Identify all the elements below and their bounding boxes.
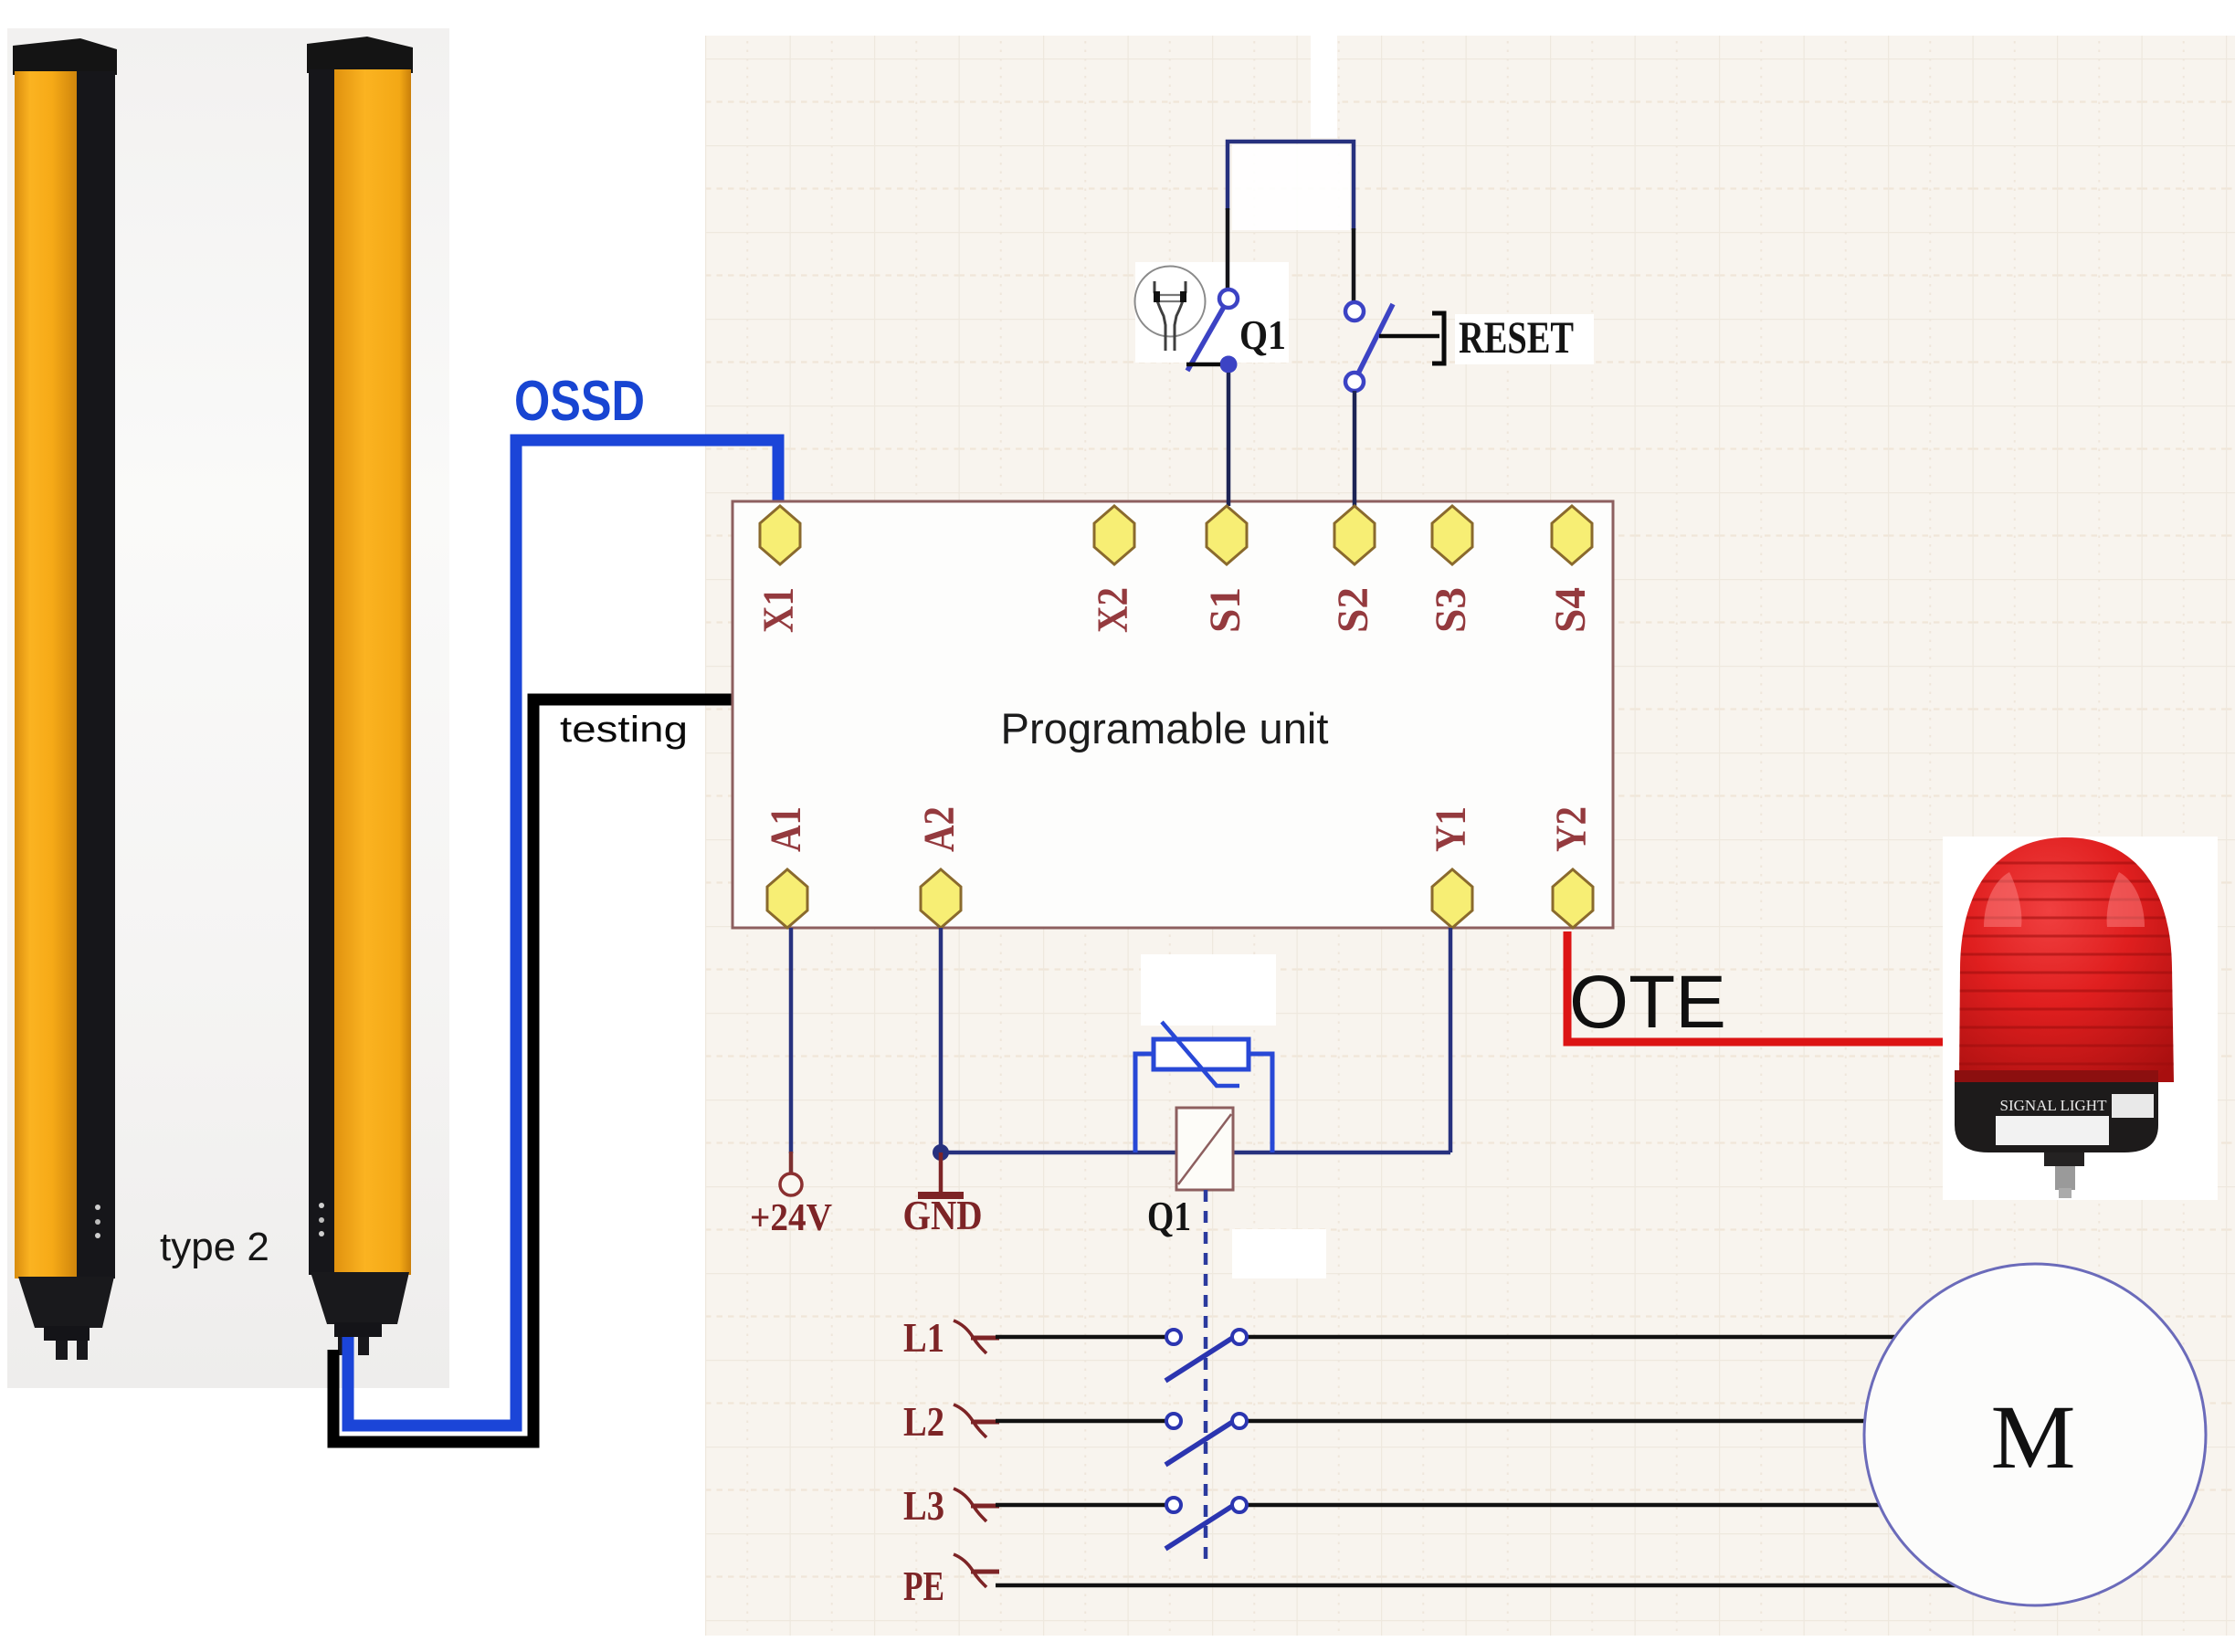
pin Y2 xyxy=(1553,869,1593,928)
wire: OSSD (blue, hand drawn) xyxy=(348,440,778,1426)
wire L3 right xyxy=(1248,1503,1945,1508)
wire: Q1 to S1 xyxy=(1227,373,1231,506)
wire: bridge over Q1/RESET (navy) xyxy=(1228,142,1354,230)
svg-text:GND: GND xyxy=(903,1192,983,1238)
svg-text:RESET: RESET xyxy=(1459,311,1574,363)
signal beacon (OTE lamp) xyxy=(1943,837,2218,1200)
pin S3 xyxy=(1432,506,1472,564)
svg-text:+24V: +24V xyxy=(750,1197,832,1239)
pin S1 xyxy=(1207,506,1247,564)
svg-text:S4: S4 xyxy=(1546,587,1595,633)
wire: A2 to Y1 (bottom bus) xyxy=(941,1151,1450,1155)
wire L1 right xyxy=(1248,1335,1959,1340)
terminal +24V xyxy=(780,1173,802,1195)
svg-text:X2: X2 xyxy=(1089,587,1137,633)
schematic sheet background with grid xyxy=(705,36,2235,1636)
svg-text:L2: L2 xyxy=(903,1398,944,1445)
svg-text:S3: S3 xyxy=(1427,587,1475,633)
pin X2 xyxy=(1094,506,1134,564)
svg-text:SIGNAL LIGHT: SIGNAL LIGHT xyxy=(2000,1097,2108,1114)
lamp (indicator) xyxy=(1135,267,1206,352)
wire L1 left xyxy=(996,1335,1166,1340)
svg-text:S2: S2 xyxy=(1329,587,1377,633)
pin S2 xyxy=(1334,506,1375,564)
svg-text:A1: A1 xyxy=(762,806,810,852)
svg-text:OTE: OTE xyxy=(1569,961,1726,1044)
svg-text:Programable unit: Programable unit xyxy=(1001,704,1329,752)
switch RESET (NO pushbutton) xyxy=(1345,302,1444,391)
pin A1 xyxy=(767,869,807,928)
wire L2 right xyxy=(1248,1419,1936,1424)
light curtain 1 (left, emitter) xyxy=(13,38,117,1360)
svg-text:Y1: Y1 xyxy=(1427,806,1475,852)
varistor RV1 frame wires xyxy=(1135,1054,1152,1152)
wire: RESET to S2 xyxy=(1353,391,1357,506)
wire: A1 to +24V xyxy=(789,928,794,1153)
pin X1 xyxy=(760,506,800,564)
junction A2/GND xyxy=(933,1144,949,1161)
wire L3 left xyxy=(996,1503,1166,1508)
wire: Y1 down xyxy=(1449,928,1453,1152)
light curtain 2 (right, receiver) xyxy=(307,37,413,1355)
pin Y1 xyxy=(1432,869,1472,928)
pin S4 xyxy=(1552,506,1592,564)
contact Q1-2 xyxy=(1165,1414,1247,1465)
svg-text:L3: L3 xyxy=(903,1482,944,1529)
svg-text:Y2: Y2 xyxy=(1547,806,1596,852)
photo backdrop (light curtains) xyxy=(7,28,449,1388)
wire: testing (black, hand drawn) xyxy=(333,700,733,1442)
phase L1 entry hook xyxy=(954,1321,986,1353)
ground GND xyxy=(918,1152,964,1195)
mechanical link (dashed) xyxy=(1204,1190,1208,1565)
svg-text:testing: testing xyxy=(560,710,688,750)
motor M1 xyxy=(1864,1264,2206,1605)
contact Q1-3 xyxy=(1165,1498,1247,1549)
contactor coil Q1 xyxy=(1176,1108,1233,1190)
svg-text:OSSD: OSSD xyxy=(514,370,645,433)
svg-text:A2: A2 xyxy=(915,806,964,852)
white patches over grid xyxy=(1311,36,1337,138)
phase L2 entry hook xyxy=(954,1405,986,1437)
svg-text:type 2: type 2 xyxy=(160,1225,269,1269)
PE entry hook xyxy=(954,1554,986,1587)
wire: OTE (red) xyxy=(1567,931,1945,1042)
svg-text:Q1: Q1 xyxy=(1147,1194,1191,1239)
svg-text:L1: L1 xyxy=(903,1314,944,1361)
svg-text:PE: PE xyxy=(903,1563,944,1609)
wire L2 left xyxy=(996,1419,1166,1424)
switch Q1 (NO auxiliary contact) xyxy=(1186,289,1238,374)
svg-text:X1: X1 xyxy=(754,587,803,633)
wire: A2 down xyxy=(939,928,944,1152)
contact Q1-1 xyxy=(1165,1330,1247,1381)
svg-text:Q1: Q1 xyxy=(1239,312,1286,358)
svg-text:S1: S1 xyxy=(1201,587,1249,633)
pin A2 xyxy=(921,869,961,928)
svg-text:M: M xyxy=(1991,1386,2076,1488)
phase L3 entry hook xyxy=(954,1489,986,1521)
wire PE xyxy=(996,1584,1973,1588)
varistor RV1 xyxy=(1154,1022,1249,1086)
programmable unit U1 box xyxy=(733,501,1613,928)
